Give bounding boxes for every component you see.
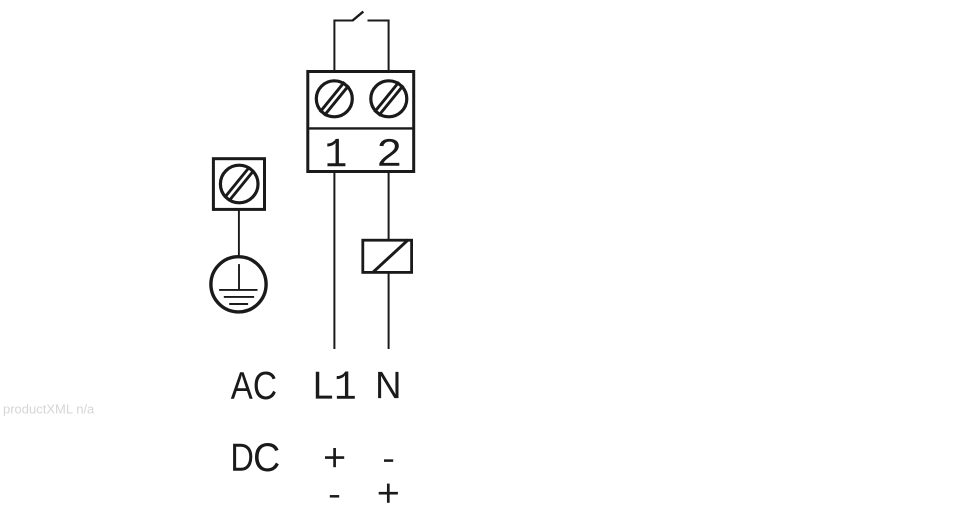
svg-text:productXML n/a: productXML n/a (3, 402, 95, 417)
